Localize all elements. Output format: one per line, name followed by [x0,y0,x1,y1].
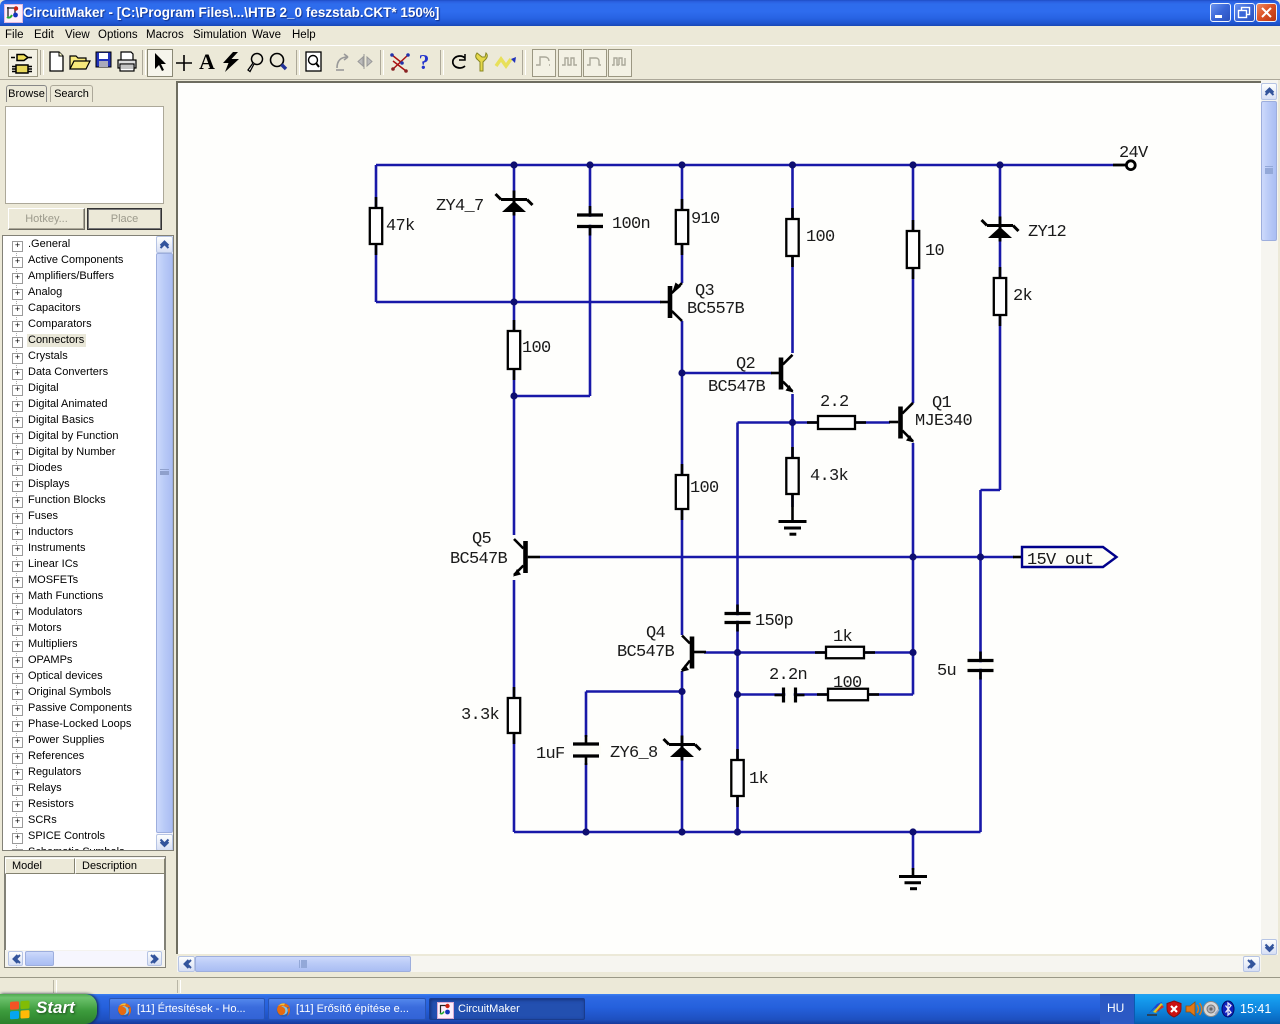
svg-text:ZY6_8: ZY6_8 [610,744,658,763]
wire bottom rail [514,831,981,834]
svg-text:2.2n: 2.2n [769,666,807,685]
junction at 682,832 [678,828,685,835]
wire 100 resistor column [513,302,516,396]
wire left branch vertical [375,165,378,302]
wire 15V out line [540,556,1014,559]
wire jog to 100n [514,395,590,398]
wire 15V pin stub [1013,556,1022,559]
capacitor 5u [966,652,996,680]
junction at 737.5,694.5 [734,691,741,698]
svg-text:100n: 100n [612,215,650,234]
transistor Q1 MJE340 [889,403,914,443]
resistor R 3.3k [508,687,520,744]
canvas v scrollbar [1261,80,1278,955]
junction at 913,652.5 [909,649,916,656]
junction at 1000,165 [996,161,1003,168]
wire 1uF link [586,690,682,693]
panel h-scrollbar [8,951,162,966]
wire ground stub [912,832,915,870]
svg-text:24V: 24V [1119,144,1149,163]
capacitor 2.2n [775,686,805,705]
transistor Q5 BC547B [513,539,540,577]
junction at 514,302 [510,298,517,305]
junction at 514,396 [510,392,517,399]
svg-text:?: ? [419,50,430,74]
junction at 913,832 [909,828,916,835]
wire Q3 collector down [681,321,684,635]
resistor R 100 interstage [676,464,688,520]
transistor Q4 BC547B [681,636,706,673]
junction at 514,165 [510,161,517,168]
svg-text:150p: 150p [755,612,794,631]
junction at 682,165 [678,161,685,168]
junction at 682,691.5 [678,688,685,695]
resistor R 100 feedback [817,689,879,701]
wire corner to 100 [868,693,913,696]
svg-text:100: 100 [690,479,719,498]
svg-text:15V out: 15V out [1027,551,1094,570]
resistor R 2.2 body [807,416,866,429]
svg-text:910: 910 [691,210,720,229]
tray icons [1147,1000,1239,1018]
zener diode ZY12 [982,217,1019,242]
svg-text:10: 10 [925,242,945,261]
junction at 980.5,557 [977,553,984,560]
wire 910/Q3 column upper [681,165,684,283]
wire 100n column [589,165,592,396]
wire Q5 collector up [513,396,516,535]
zener diode ZY6_8 [664,736,701,761]
canvas h scrollbar [177,956,1261,972]
svg-text:2.2: 2.2 [820,393,849,412]
capacitor 100n [575,206,605,236]
ground bottom [899,868,927,889]
wire zener rail y302 [376,301,661,304]
wire Q1 emitter down [912,443,915,695]
svg-text:Q1: Q1 [932,394,952,413]
wire 24V top rail [376,164,1113,167]
svg-text:Q4: Q4 [646,624,666,643]
svg-text:Q5: Q5 [472,530,492,549]
junction at 590,165 [586,161,593,168]
svg-text:1k: 1k [833,628,853,647]
svg-text:A: A [199,52,215,72]
junction at 737.5,832 [734,828,741,835]
wire 2.2 row [738,421,891,424]
wire Q2 base [682,372,772,375]
svg-text:MJE340: MJE340 [915,412,973,431]
wire Q5 emitter down [513,580,516,832]
svg-text:1k: 1k [749,770,769,789]
capacitor 1uF [571,735,601,765]
output tag 15V out [1022,547,1117,567]
svg-text:BC547B: BC547B [450,550,508,569]
svg-text:47k: 47k [386,217,415,236]
resistor R 10 [907,220,919,279]
svg-text:ZY12: ZY12 [1028,223,1066,242]
wire 1k row [704,651,913,654]
svg-text:ZY4_7: ZY4_7 [436,197,484,216]
wire ZY12/2k column [999,165,1002,490]
svg-text:Q3: Q3 [695,282,715,301]
svg-text:Q2: Q2 [736,355,755,374]
resistor R 2k [994,267,1006,326]
resistor R 100 collector [786,208,798,267]
junction at 586,832 [582,828,589,835]
junction at 792.5,165 [789,161,796,168]
zener diode ZY4_7 [496,191,533,216]
svg-text:1uF: 1uF [536,745,565,764]
wire ZY4_7 column [513,165,516,302]
wire 5u column [979,490,982,832]
wire 2k jog [981,489,1001,492]
resistor R 910 [676,199,688,255]
svg-text:BC557B: BC557B [687,300,745,319]
junction at 913,165 [909,161,916,168]
svg-text:BC547B: BC547B [617,643,675,662]
terminal 24V [1113,161,1135,170]
resistor R 100 bias [508,320,520,380]
wire 2.2n/100 row [738,693,829,696]
wire 1uF column [585,692,588,738]
junction at 792.5,422.5 [789,419,796,426]
svg-text:BC547B: BC547B [708,378,766,397]
wire Q2 emitter down [791,394,794,423]
wire 4.3k branch [791,423,794,508]
svg-text:100: 100 [522,339,551,358]
svg-text:4.3k: 4.3k [810,467,849,486]
wire 10/Q1 column [912,165,915,403]
svg-text:2k: 2k [1013,287,1033,306]
resistor R 47k [370,197,382,255]
wire 150p/1k column [736,423,739,833]
svg-text:100: 100 [833,674,862,693]
junction at 913,557 [909,553,916,560]
ground below 4.3k [779,505,807,534]
resistor R 1k feedback [815,647,875,659]
svg-text:100: 100 [806,228,835,247]
transistor Q3 BC557B [660,283,682,322]
junction at 682,373 [678,369,685,376]
svg-text:3.3k: 3.3k [461,706,500,725]
wire 100/Q2 column [791,165,794,353]
wire Q4 emitter down [681,671,684,832]
resistor R 1k lower [731,749,743,807]
resistor R 4.3k [786,447,798,505]
svg-text:5u: 5u [937,662,956,681]
junction at 737.5,652.5 [734,649,741,656]
capacitor 150p [723,605,753,632]
transistor Q2 BC547B [771,355,794,393]
